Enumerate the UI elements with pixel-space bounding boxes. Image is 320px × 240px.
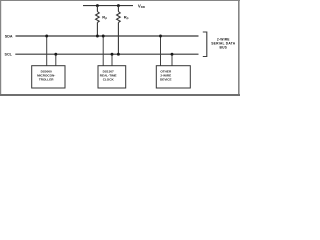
- junction dot rail/R1: [96, 4, 99, 7]
- wire U2 SDA drop: [102, 36, 104, 66]
- DS5000 microcontroller U1 box: [32, 66, 65, 88]
- svg-text:BUS: BUS: [219, 45, 227, 49]
- junction dot SDA/U3: [159, 35, 162, 38]
- junction dot SCL/U1: [54, 53, 57, 56]
- junction dot SDA/U1: [45, 35, 48, 38]
- svg-text:CLOCK: CLOCK: [103, 77, 115, 81]
- VDD rail wire: [83, 5, 133, 7]
- wire U1 SDA drop: [46, 36, 48, 66]
- svg-text:SDA: SDA: [5, 34, 13, 38]
- svg-text:SCL: SCL: [5, 53, 13, 57]
- 2-wire serial data bus label: [211, 37, 235, 49]
- other 2-wire device U3 box: [156, 66, 190, 88]
- svg-text:RP: RP: [102, 15, 107, 21]
- wire U3 SDA drop: [160, 36, 162, 66]
- svg-text:VDD: VDD: [138, 3, 146, 9]
- wire U1 SCL drop: [55, 54, 57, 65]
- svg-text:DEVICE: DEVICE: [160, 77, 172, 81]
- junction dot SDA/U2: [102, 35, 105, 38]
- junction dot SCL/U2: [111, 53, 114, 56]
- SDA bus wire: [16, 35, 199, 37]
- wire U3 SCL drop: [171, 54, 173, 65]
- svg-text:TROLLER: TROLLER: [39, 77, 54, 81]
- junction dot rail/R2: [117, 4, 120, 7]
- bus grouping bracket: [203, 32, 207, 57]
- resistor R_P (SCL pullup): [117, 6, 121, 55]
- junction dot SCL/U3: [171, 53, 174, 56]
- junction dot SDA/R1: [96, 35, 99, 38]
- DS1307 real-time clock U2 box: [98, 66, 126, 88]
- wire U2 SCL drop: [111, 54, 113, 65]
- SCL bus wire: [15, 53, 198, 55]
- junction dot SCL/R2: [117, 53, 120, 56]
- svg-text:RP: RP: [124, 15, 129, 21]
- resistor R_P (SDA pullup): [96, 6, 100, 36]
- border frame: [0, 0, 240, 96]
